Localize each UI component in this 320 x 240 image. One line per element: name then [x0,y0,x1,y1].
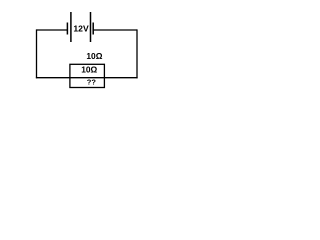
wire bottom [36,77,138,79]
battery V1 short plate left [66,23,68,35]
resistor R1 box [70,64,105,87]
svg-text:10Ω: 10Ω [86,51,102,61]
wire top-left segment [37,29,68,31]
svg-text:10Ω: 10Ω [81,64,97,74]
wire top-right segment [93,29,137,31]
battery V1 tall plate left [70,12,72,42]
wire left side [36,29,38,78]
wire right side [136,29,138,78]
svg-text:12V: 12V [73,24,89,34]
svg-text:??: ?? [87,78,97,87]
battery V1 short plate right [92,23,94,35]
battery V1 tall plate right [90,12,92,42]
